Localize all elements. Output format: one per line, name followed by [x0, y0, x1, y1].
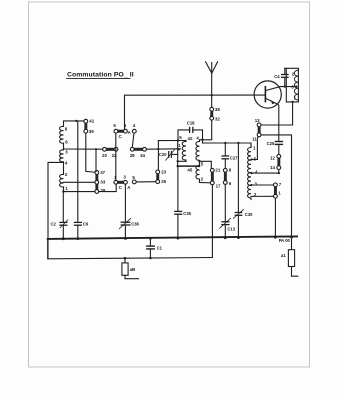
svg-text:38: 38 [215, 107, 220, 112]
antenna ANT [206, 62, 218, 95]
wire contact 32 down and left to node 4 of transformer [203, 120, 212, 140]
wire vertical from 20-row down to contact 37 [95, 149, 97, 171]
capacitor C25 [267, 141, 283, 154]
wire tap 33 row from winding C [64, 181, 95, 183]
svg-text:13: 13 [255, 118, 260, 123]
wire top rail of transformer 42 [158, 140, 186, 142]
node bus dot C30 [237, 236, 240, 239]
svg-text:25: 25 [161, 179, 166, 184]
transformer 45 lower winding (pins 5,2) [187, 160, 203, 182]
svg-text:C1: C1 [157, 246, 163, 251]
wire tap5 to contact 21 [200, 161, 212, 168]
wire winding C bottom stub [63, 187, 65, 192]
svg-text:C35: C35 [183, 211, 191, 216]
switch contact 38/32 [210, 107, 221, 122]
capacitor C18 [187, 121, 195, 133]
wire tap3 to contact 7 [251, 184, 273, 186]
wire tap4 row [252, 172, 279, 174]
capacitor C4 [274, 68, 288, 86]
svg-text:C36: C36 [131, 222, 139, 227]
resistor aB [122, 258, 139, 279]
node dot C4 junction on pin3 wire [284, 85, 286, 87]
node dot C1 bottom on lower rail [149, 257, 152, 260]
node bus dot 7/1 [274, 236, 277, 239]
svg-text:37: 37 [100, 170, 105, 175]
svg-text:12: 12 [270, 155, 275, 160]
node dot winding5 top tap [198, 160, 200, 162]
capacitor C36 (variable) [119, 184, 139, 238]
node dot C27 tap [224, 142, 226, 144]
capacitor C2 (variable) [51, 192, 68, 239]
lower rail [48, 239, 213, 259]
node bus dot C2 [62, 237, 65, 240]
transistor Q1 [254, 81, 281, 108]
wire contact 1 down to bus [274, 198, 276, 237]
svg-text:20: 20 [102, 153, 107, 158]
svg-text:C4: C4 [274, 74, 280, 79]
wire winding 6/3 row to contact 20 [64, 148, 103, 150]
svg-text:29: 29 [100, 188, 105, 193]
wire contact 17 down across bus to lower rail [211, 185, 213, 258]
svg-text:42: 42 [188, 136, 193, 141]
switch contact 28/34 [130, 147, 147, 157]
transformer L1 winding B (pins 3,4) [60, 150, 69, 166]
wire C20 riser from rail top down to contact 23 [157, 141, 159, 170]
svg-text:C27: C27 [230, 155, 238, 160]
transformer L1 winding C (pins 2,1) [60, 172, 69, 191]
wire contact 39 down then right to contact 37 [86, 133, 95, 172]
node dot tap4 at coil [250, 172, 252, 174]
node junction dot pin4 [201, 139, 203, 141]
resistor a1 [281, 250, 298, 277]
wire rail between winding B and C [63, 162, 65, 174]
capacitor C6 [75, 122, 89, 239]
wire antenna down to contact 38 [211, 95, 213, 107]
node dot pin1 on box bottom [291, 101, 293, 103]
wire C18 right plate to node 4 [193, 130, 203, 143]
wire emitter down to C25 [278, 104, 279, 141]
node junction dot top-left [75, 120, 77, 122]
switch contact 20/22 [102, 147, 118, 157]
node dot on 20-row [95, 148, 97, 150]
wire tap arrow from contact 34 into winding 42 (tap 1) [146, 143, 181, 151]
coil L3 right (pins 1,5,4,3,2) [248, 143, 258, 200]
wire tap5 right [251, 159, 257, 161]
svg-text:C2: C2 [51, 222, 57, 227]
node bus dot C13 [224, 236, 227, 239]
node bus dot C35 [177, 237, 180, 240]
transformer 42 left winding [177, 135, 193, 167]
switch contact 8/6 [223, 168, 231, 186]
switch contact 21/17 [210, 167, 221, 188]
wire L1A top stub to node 41 [64, 121, 84, 126]
svg-text:aB: aB [130, 267, 136, 272]
wire contact 11 down to coil tap 5 [257, 137, 258, 160]
wire pin2 bottom to contact 1 [251, 195, 274, 197]
svg-text:41: 41 [89, 119, 94, 124]
wire contact 4 down to contact 28 [132, 133, 134, 147]
svg-text:23: 23 [161, 170, 166, 175]
node bus dot C1 top [149, 237, 152, 240]
switch contact 4 (single) [132, 123, 136, 133]
node dot tap4 right [278, 172, 280, 174]
transformer L1 winding A (pins 8,6) [60, 126, 69, 144]
capacitor C30 (variable) [233, 143, 253, 238]
svg-text:39: 39 [89, 129, 94, 134]
switch contact 5 (single, mid row) [132, 175, 136, 184]
capacitor C20 (variable) [159, 149, 178, 160]
svg-text:PA 00: PA 00 [279, 238, 291, 243]
svg-text:45: 45 [187, 168, 192, 173]
node antenna junction on top rail [211, 94, 213, 96]
svg-text:a1: a1 [281, 253, 286, 258]
node dot W1 top [177, 139, 179, 141]
wire tap 4 to left rail [48, 162, 64, 258]
svg-text:34: 34 [140, 153, 145, 158]
svg-text:C18: C18 [187, 121, 195, 126]
wire contact 29 to contact 1 riser [99, 184, 117, 191]
oscillator coil box L2 (pins 2,3,1) [285, 68, 299, 102]
svg-text:17: 17 [216, 183, 221, 188]
node bus dot right vertical [290, 236, 293, 239]
node bus dot C6 [76, 237, 79, 240]
switch contact 1/3 with C A [114, 175, 131, 191]
capacitor C1 [147, 238, 163, 258]
svg-text:Commutation PO_ II: Commutation PO_ II [67, 72, 134, 79]
switch contact 7/1 [274, 182, 282, 198]
svg-text:32: 32 [215, 117, 220, 122]
svg-text:C6: C6 [83, 222, 89, 227]
wire top rail y=95 from contact A riser to transistor base [125, 95, 266, 129]
switch contact 5/6 with C A [113, 123, 131, 139]
wire rail between winding A and B [63, 143, 65, 150]
svg-text:28: 28 [130, 153, 135, 158]
svg-text:C25: C25 [267, 141, 275, 146]
wire pin2 to contact 17 [200, 182, 211, 184]
wire pin1 row to contact 29 [63, 191, 95, 193]
capacitor C27 [222, 143, 238, 168]
svg-text:C13: C13 [227, 227, 235, 232]
wire thick link between windings [178, 165, 200, 167]
wire C18 left plate to winding 42 top [178, 130, 190, 141]
transformer 42 right winding (pin 4) [196, 135, 203, 160]
svg-text:21: 21 [215, 167, 220, 172]
node dot resistor aB on lower rail [124, 257, 127, 260]
wire contact 14 down to tap4 row [278, 170, 280, 174]
wire collector to coil pin 3 [280, 86, 296, 88]
capacitor C13 (variable) [220, 184, 236, 237]
ground bus (thick) [48, 236, 297, 239]
node dot where 34-row crosses C20 riser [157, 148, 159, 150]
switch contact 23/25 [156, 170, 167, 185]
wire pin1 down then left to contact 13 [261, 102, 293, 125]
node dot pin3 at coil [295, 85, 297, 87]
switch contact 12/14 [270, 154, 281, 169]
switch contact 41/39 [84, 119, 95, 134]
node dot link right [198, 165, 200, 167]
wire contact 11 right then down to bus and R a1 [261, 135, 292, 250]
svg-text:14: 14 [270, 165, 275, 170]
switch contact 13/11 [252, 118, 261, 141]
switch contact strip 37/33/29 [95, 170, 106, 193]
wire node4 rail y=143 to right coil [203, 143, 252, 147]
node dot C30 tap [237, 142, 239, 144]
svg-text:22: 22 [112, 153, 117, 158]
capacitor C35 [175, 166, 192, 238]
title Commutation PO_II [67, 72, 134, 79]
svg-text:C30: C30 [245, 212, 253, 217]
svg-text:C20: C20 [159, 152, 167, 157]
svg-text:33: 33 [100, 180, 105, 185]
wire contact 5 to contact 25 [136, 181, 156, 183]
wire contact 5 down through 22 to contact 1 [115, 133, 117, 180]
node bus dot C36 [124, 237, 127, 240]
svg-text:11: 11 [252, 136, 257, 141]
node winding C bottom junction [62, 190, 64, 192]
